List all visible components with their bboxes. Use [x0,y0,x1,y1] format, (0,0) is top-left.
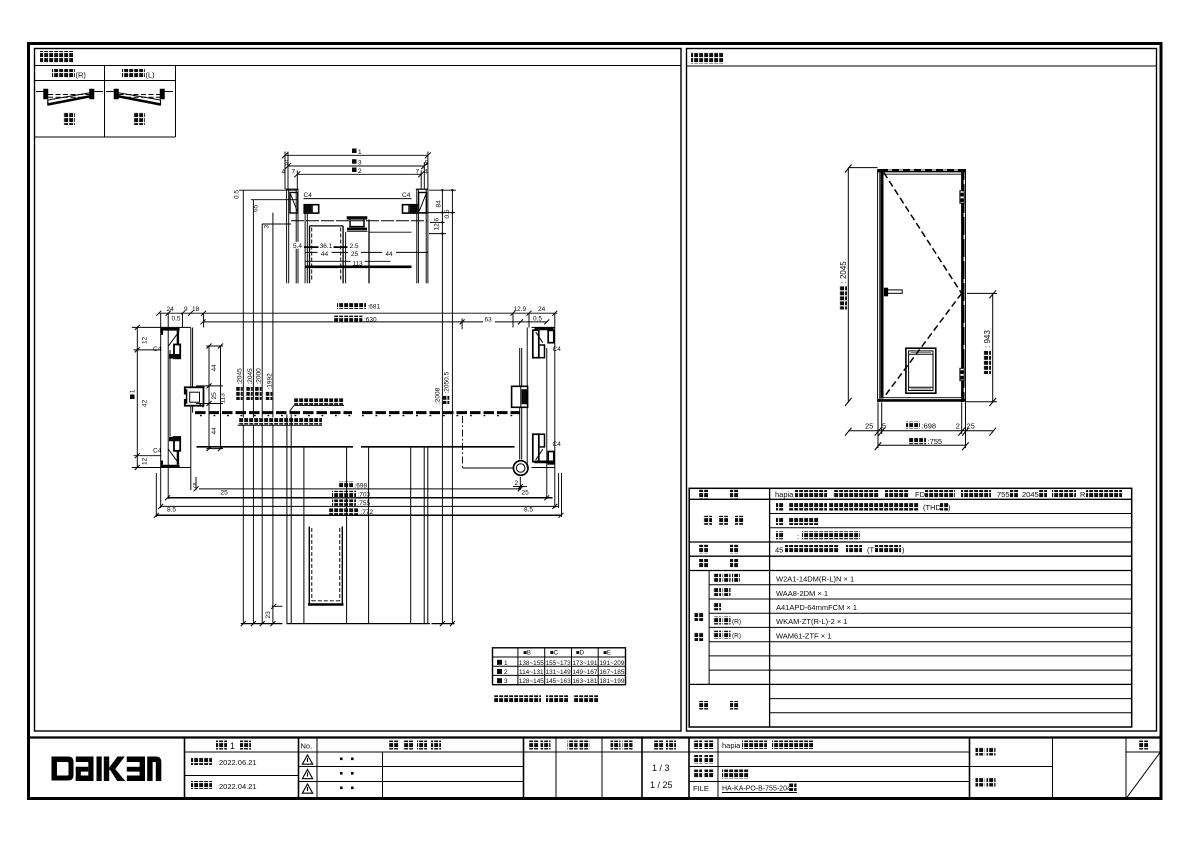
bottom arrows on height dim lines [241,621,455,626]
dim text 755 [909,437,926,444]
svg-text:WAM61-ZTF × 1: WAM61-ZTF × 1 [776,632,831,641]
note under table [494,695,541,702]
把手 label [699,545,708,554]
lower section verticals [287,415,428,624]
head wall verticals right [416,189,418,283]
品番 vertical label [695,612,704,621]
仕上げ label [703,516,712,525]
svg-text:C4: C4 [304,192,313,199]
box2 label 左吊元(L) [122,69,145,78]
品番 row4 label 丁番 [713,617,721,625]
svg-text:2.5: 2.5 [349,243,358,250]
品番 row2 label [713,588,721,596]
head rail tick holes [888,169,965,392]
left jamb vertical dim 12/42/12 [132,325,161,470]
svg-text:25: 25 [967,422,975,431]
svg-text:25: 25 [351,251,359,258]
630 label [333,316,362,322]
svg-text:128~145: 128~145 [519,678,545,685]
lock circle [513,461,528,476]
front view door frame left thin lines [878,169,966,402]
right panel inner frame [687,49,1157,732]
svg-text:12.9: 12.9 [514,306,527,313]
品番 label [693,755,702,764]
rotated labels right pair [434,387,441,404]
svg-text:A41APD-64mmFCM × 1: A41APD-64mmFCM × 1 [776,603,857,612]
svg-text:163~181: 163~181 [572,678,598,685]
top dim line #2 [297,173,421,175]
svg-text:173~191: 173~191 [572,660,598,667]
head frame lower line with ticks [291,220,427,222]
left reference ticks [239,190,297,224]
bottom-left adjustment table [493,648,626,685]
svg-text:3: 3 [504,678,508,685]
svg-text:23: 23 [265,611,272,619]
svg-text:W2A1-14DM(R-L)N × 1: W2A1-14DM(R-L)N × 1 [776,575,854,584]
svg-text:131~149: 131~149 [546,669,572,676]
仕上げ row2 value [776,517,784,525]
dim 772 [156,514,561,516]
dim 703 [168,497,553,499]
svg-text:C4: C4 [153,346,162,353]
top dim line #1 [282,152,431,190]
svg-text:■C: ■C [550,650,559,657]
svg-text:R: R [1080,490,1086,499]
svg-text:No.: No. [301,742,313,751]
svg-text:44: 44 [385,251,393,258]
作成 header [611,741,621,750]
head dims 5.4 36.1 2.5 [294,247,428,261]
annotation 1 with leader [294,398,344,405]
bottom width dims [845,402,996,450]
floor tick line [241,623,455,625]
svg-text:1 / 3: 1 / 3 [652,763,670,773]
svg-text:hapia: hapia [722,741,741,750]
図名 label [693,770,702,779]
right panel header line [687,65,1157,67]
left panel title 断面図 [40,51,73,63]
svg-text:25: 25 [865,422,873,431]
svg-text:1: 1 [358,149,362,156]
svg-text::1992: :1992 [266,373,273,390]
svg-text:5: 5 [425,160,429,167]
title block grid [29,738,1161,799]
box2 sketch left-hang section [106,89,173,106]
svg-text:7: 7 [416,168,420,175]
svg-text:63: 63 [485,316,493,323]
dim 2 tick [513,484,527,489]
svg-text::2045: :2045 [237,368,244,385]
681 label [337,303,366,309]
center stopper T [347,216,368,219]
svg-text:C4: C4 [153,448,162,455]
top dim line #3 [288,165,424,167]
svg-text:145~163: 145~163 [546,678,572,685]
svg-text:0.5: 0.5 [533,315,542,322]
svg-text:3: 3 [264,225,271,229]
door leaf dashed band [195,411,352,414]
要式 label [699,490,708,499]
head door stop right [403,205,418,213]
svg-text:2022.04.21: 2022.04.21 [219,782,257,791]
svg-text:7: 7 [292,168,296,175]
svg-text::755: :755 [928,437,943,446]
latch keeper block [184,387,204,407]
door panel head section [305,213,411,283]
svg-text:6: 6 [433,218,440,222]
svg-text:5: 5 [193,483,197,490]
svg-text:25: 25 [221,490,229,497]
right side small dims of head [419,190,456,623]
svg-text:44: 44 [321,251,329,258]
svg-text:HA-KA-PO-B-755-2045-: HA-KA-PO-B-755-2045- [722,786,798,793]
svg-text:12: 12 [433,223,440,231]
svg-text:44: 44 [211,427,218,435]
svg-text:(R): (R) [732,633,741,640]
svg-text::2050.5: :2050.5 [443,371,450,393]
dim 23 [271,604,282,609]
錠前 label [699,559,708,568]
door edge hinge side [520,348,522,460]
svg-text:0.5: 0.5 [234,190,241,199]
svg-text:84: 84 [436,200,443,208]
svg-text:2: 2 [956,422,960,431]
head frame board right [419,193,427,214]
front view door leaf left stile [881,172,884,399]
63 label [483,316,495,323]
svg-text:138~155: 138~155 [519,660,545,667]
hang direction boxes grid [35,66,176,138]
lever handle [884,288,902,296]
svg-text:■D: ■D [576,650,585,657]
box1 label 右吊元(R) [52,69,75,78]
svg-text:: 943: : 943 [983,330,992,348]
svg-text:25: 25 [211,392,218,400]
svg-text:2: 2 [515,480,519,487]
備考 label [699,701,708,710]
svg-text:(T: (T [867,546,874,555]
head wall verticals left [286,189,429,283]
svg-text:2045: 2045 [1022,490,1039,499]
svg-text:3: 3 [358,160,362,167]
spec table grid [689,488,1131,727]
svg-text:36.1: 36.1 [320,243,333,250]
dim marker square2 [352,168,357,173]
製図者 label [976,778,985,787]
plan main dim line A: 24 / 9 18 / 681 / 12.9 / 24 [156,311,557,508]
svg-text:12: 12 [142,336,149,344]
hinge bottom [960,368,964,380]
dim 698 [194,477,523,491]
svg-text:155~173: 155~173 [546,660,572,667]
改訂日 row [191,781,212,789]
svg-text:2022.06.21: 2022.06.21 [219,758,257,767]
frame face verticals latch side [191,328,193,491]
svg-text:2: 2 [358,168,362,175]
svg-text:■E: ■E [603,650,611,657]
front view bottom edge [878,399,966,402]
承認 header [529,741,539,750]
svg-text::698: :698 [355,482,368,489]
dim marker square1 [352,149,357,154]
svg-text:WKAM-ZT(R-L)-2 × 1: WKAM-ZT(R-L)-2 × 1 [776,617,847,626]
svg-text:149~167: 149~167 [572,669,598,676]
svg-text:■B: ■B [523,650,531,657]
sill line [197,446,354,448]
right panel title 正面図 [691,52,724,64]
left jamb upper casing [160,327,190,436]
plan dim line B: 630 / 63 [201,318,550,329]
svg-text:FILE: FILE [693,784,709,793]
box1 mark [63,112,75,125]
svg-text:5.4: 5.4 [293,243,302,250]
long height dim lines left [243,190,273,623]
lock leader dash-dot [463,416,514,470]
頁 label [1139,741,1149,750]
仕上げ row1 value [776,503,784,511]
品番 row1 label 見切枠 [713,574,721,582]
svg-text:1: 1 [230,741,235,751]
svg-text:8.5: 8.5 [524,507,533,514]
front view right jamb band [961,169,964,402]
hinge top [960,191,964,381]
svg-text:755: 755 [997,490,1010,499]
hinge plan [512,386,528,407]
改訂履歴 header [389,741,399,750]
svg-text:25: 25 [522,490,530,497]
head door stop left [304,205,319,213]
left height dim 2045 [845,165,878,407]
svg-text::681: :681 [368,304,381,311]
svg-text:191~209: 191~209 [599,660,625,667]
svg-text::698: :698 [922,422,937,431]
svg-text:0.5: 0.5 [444,209,451,218]
left panel inner frame [35,49,682,732]
svg-text:(L): (L) [146,71,156,80]
front view head rail [878,169,966,172]
rotated height labels [236,368,244,400]
仕上げ row3 value [776,531,784,539]
svg-text:(R): (R) [76,71,87,80]
svg-text:24: 24 [538,306,546,313]
right dim 943 [966,290,998,406]
right jamb upper casing [527,327,555,385]
left extension verticals for bottom dims [156,473,561,517]
svg-text:0.5: 0.5 [172,315,181,322]
door top rail thick lines [305,265,412,268]
svg-text:8.5: 8.5 [167,507,176,514]
annotation 2 [239,418,322,425]
dim 755 [158,504,558,509]
svg-text:24: 24 [167,306,175,313]
svg-text::772: :772 [361,509,374,516]
svg-text:9: 9 [184,306,188,313]
svg-text:113: 113 [220,393,227,404]
svg-text::630: :630 [364,316,377,323]
head frame board left [290,193,426,214]
svg-text:FD: FD [915,490,926,499]
svg-text:181~199: 181~199 [599,678,625,685]
swing dashed lines [884,173,962,398]
確認 header [568,741,578,750]
rev col 第1版 [216,741,227,750]
svg-text::2045: :2045 [247,368,254,385]
svg-text:4: 4 [424,168,428,175]
box2 mark [133,112,145,125]
svg-text:hapia: hapia [775,490,794,499]
svg-text:1: 1 [504,660,508,667]
svg-text:: 2045: : 2045 [839,261,848,284]
svg-text:C4: C4 [553,346,562,353]
svg-text:WAA8-2DM × 1: WAA8-2DM × 1 [776,589,828,598]
svg-text:1 / 25: 1 / 25 [650,780,673,790]
svg-text:167~185: 167~185 [599,669,625,676]
svg-text:12: 12 [142,457,149,465]
svg-text::: : [797,532,799,541]
svg-text:(R): (R) [732,619,741,626]
extension ticks above head [284,152,286,190]
revision dots [340,758,354,790]
warning triangles [302,755,312,793]
svg-text:4: 4 [282,168,286,175]
plan inner dim 44/25/44 vertical [196,344,223,452]
left jamb lower casing [160,437,190,468]
svg-text:18: 18 [192,306,200,313]
right jamb lower casing [527,408,555,468]
front view head inner line [884,173,962,175]
door bottom U detail [308,527,344,605]
svg-text:C4: C4 [402,192,411,199]
svg-text:5: 5 [285,160,289,167]
svg-text:5: 5 [882,422,886,431]
svg-text:114~131: 114~131 [519,669,544,676]
図名 value 三面図 [722,770,749,779]
svg-text::2008: :2008 [434,387,441,404]
pet door [906,348,936,393]
svg-text:42: 42 [142,399,149,407]
head soffit line [304,198,412,200]
DAIKEN logo [52,757,162,782]
縮尺 header [654,741,664,750]
svg-text:(THD: (THD [923,503,941,512]
box1 sketch right-hang section [36,89,103,106]
制定日 row [191,757,212,765]
svg-text:44: 44 [211,364,218,372]
作成者 label [976,747,985,756]
svg-text::2000: :2000 [256,368,263,385]
left panel header line [35,65,682,67]
svg-text:45: 45 [775,546,783,555]
svg-text:C4: C4 [553,441,562,448]
品番 row3 label 扉 [713,602,721,610]
dim marker square3 [352,159,357,164]
品番 row5 label 把手 [713,631,721,639]
名称 label [693,741,702,750]
svg-text:2: 2 [504,669,508,676]
